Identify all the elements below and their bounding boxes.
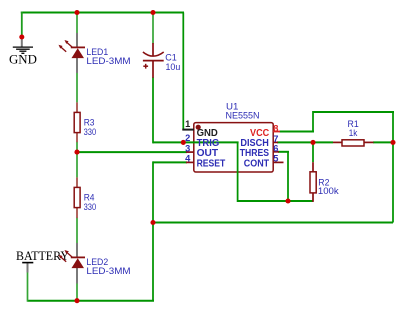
wire TRIG horizontal bbox=[153, 141, 239, 143]
svg-text:GND: GND bbox=[9, 53, 37, 67]
wire R4 to LED2 bbox=[76, 218, 78, 244]
svg-text:100k: 100k bbox=[318, 186, 339, 196]
wire VCC to pin8 vertical bbox=[312, 111, 314, 132]
wire VCC rail horizontal bbox=[153, 222, 393, 224]
junction THRES / R2 bottom wire bbox=[285, 198, 290, 203]
lead R4 top bbox=[76, 177, 78, 187]
resistor R1 body bbox=[342, 140, 364, 146]
wire LED2 to bottom rail bbox=[76, 283, 78, 301]
wire battery drop bbox=[27, 272, 29, 302]
resistor R4 body bbox=[74, 187, 80, 207]
pin stub pin4 RESET bbox=[186, 161, 194, 163]
svg-text:1: 1 bbox=[185, 119, 190, 129]
pin gray LED1 top bbox=[76, 33, 78, 48]
wire GND top rail bbox=[21, 12, 184, 14]
wire C1 bottom to TRIG bbox=[152, 77, 154, 143]
wire bottom battery rail bbox=[28, 300, 155, 302]
battery supply symbol bbox=[22, 262, 33, 264]
wire DISCH node to R2 top bbox=[312, 142, 314, 162]
ground symbol GND bbox=[13, 47, 33, 53]
junction GND pin bbox=[19, 34, 24, 39]
wire GND symbol drop bbox=[21, 12, 23, 38]
wire pin1 drop bbox=[182, 13, 184, 130]
LED D2 symbol bbox=[59, 250, 86, 268]
svg-text:CONT: CONT bbox=[244, 158, 269, 169]
wire pin1 stub (black) bbox=[182, 129, 194, 131]
lead R2 bottom bbox=[312, 193, 314, 202]
junction top rail / C1 bbox=[150, 10, 155, 15]
svg-text:RESET: RESET bbox=[197, 158, 226, 169]
junction top rail / LED1 bbox=[74, 10, 79, 15]
lead R2 top bbox=[312, 162, 314, 172]
wire RESET horizontal bbox=[153, 161, 187, 163]
pin stub pin5 CONT bbox=[273, 161, 284, 163]
wire LED1 to R3 bbox=[76, 73, 78, 103]
LED D1 symbol bbox=[59, 40, 86, 58]
svg-text:NE555N: NE555N bbox=[226, 111, 260, 121]
lead R1 right bbox=[364, 141, 374, 143]
wire OUT node to R4 bbox=[76, 152, 78, 177]
wire THRES down leg bbox=[287, 152, 289, 201]
U1 pin1 marker dot bbox=[196, 125, 201, 130]
svg-text:R3: R3 bbox=[84, 118, 95, 128]
svg-text:1k: 1k bbox=[349, 128, 358, 138]
svg-text:LED-3MM: LED-3MM bbox=[86, 266, 130, 276]
wire VCC right leg bbox=[392, 111, 394, 223]
op-amp U1 body (NE555 timer) bbox=[194, 123, 273, 172]
svg-text:7: 7 bbox=[273, 134, 278, 144]
capacitor C1 symbol bbox=[143, 52, 164, 69]
svg-text:6: 6 bbox=[273, 143, 278, 153]
wire VCC top horizontal bbox=[313, 111, 394, 113]
wire LED1 cathode drop bbox=[76, 13, 78, 34]
svg-text:10u: 10u bbox=[166, 62, 181, 72]
junction DISCH / R2 / R1 bbox=[310, 140, 315, 145]
pin gray battery bbox=[27, 263, 29, 272]
svg-text:330: 330 bbox=[84, 127, 97, 137]
svg-text:5: 5 bbox=[273, 154, 278, 164]
svg-text:330: 330 bbox=[84, 202, 97, 212]
pin gray LED1 bottom bbox=[76, 58, 78, 73]
lead C1 top bbox=[152, 43, 154, 56]
pin gray LED2 bottom bbox=[76, 268, 78, 284]
wire RESET/VCC left leg bbox=[152, 161, 154, 300]
lead R4 bottom bbox=[76, 208, 78, 219]
svg-text:LED-3MM: LED-3MM bbox=[86, 56, 130, 66]
wire C1 top drop bbox=[152, 13, 154, 44]
pin gray GND symbol pin bbox=[21, 37, 23, 47]
lead R3 top bbox=[76, 102, 78, 112]
wire OUT (pin3) horizontal bbox=[77, 151, 187, 153]
svg-text:3: 3 bbox=[185, 143, 190, 153]
svg-text:4: 4 bbox=[185, 154, 191, 164]
pin stub pin8 VCC (red) bbox=[273, 131, 280, 133]
pin stub pin6 THRES bbox=[273, 151, 279, 153]
junction LED2 / bottom rail bbox=[74, 298, 79, 303]
pin gray LED2 top bbox=[76, 243, 78, 258]
junction TRIG pin2 bbox=[181, 140, 186, 145]
wire TRIG down leg bbox=[237, 142, 239, 202]
wire THRES stub horizontal bbox=[278, 151, 289, 153]
wire TRIG to R2 bottom bbox=[238, 200, 313, 202]
pin stub pin7 DISCH bbox=[273, 141, 278, 143]
junction RESET / VCC rail bbox=[150, 220, 155, 225]
resistor R3 body bbox=[74, 112, 80, 132]
wire R3 to OUT node bbox=[76, 142, 78, 152]
svg-text:8: 8 bbox=[273, 123, 278, 133]
wire R1 right to VCC leg bbox=[373, 141, 393, 143]
svg-text:R4: R4 bbox=[84, 193, 95, 203]
wire pin8 horizontal bbox=[280, 131, 315, 133]
resistor R2 body bbox=[310, 172, 316, 193]
junction OUT node bbox=[74, 150, 79, 155]
wire DISCH to R1 bbox=[277, 141, 333, 143]
junction R1 right / VCC bbox=[390, 140, 395, 145]
lead R3 bottom bbox=[76, 133, 78, 143]
lead R1 left bbox=[333, 141, 342, 143]
svg-text:2: 2 bbox=[185, 133, 190, 143]
pin stub pin3 OUT bbox=[186, 151, 194, 153]
lead C1 bottom bbox=[152, 61, 154, 78]
